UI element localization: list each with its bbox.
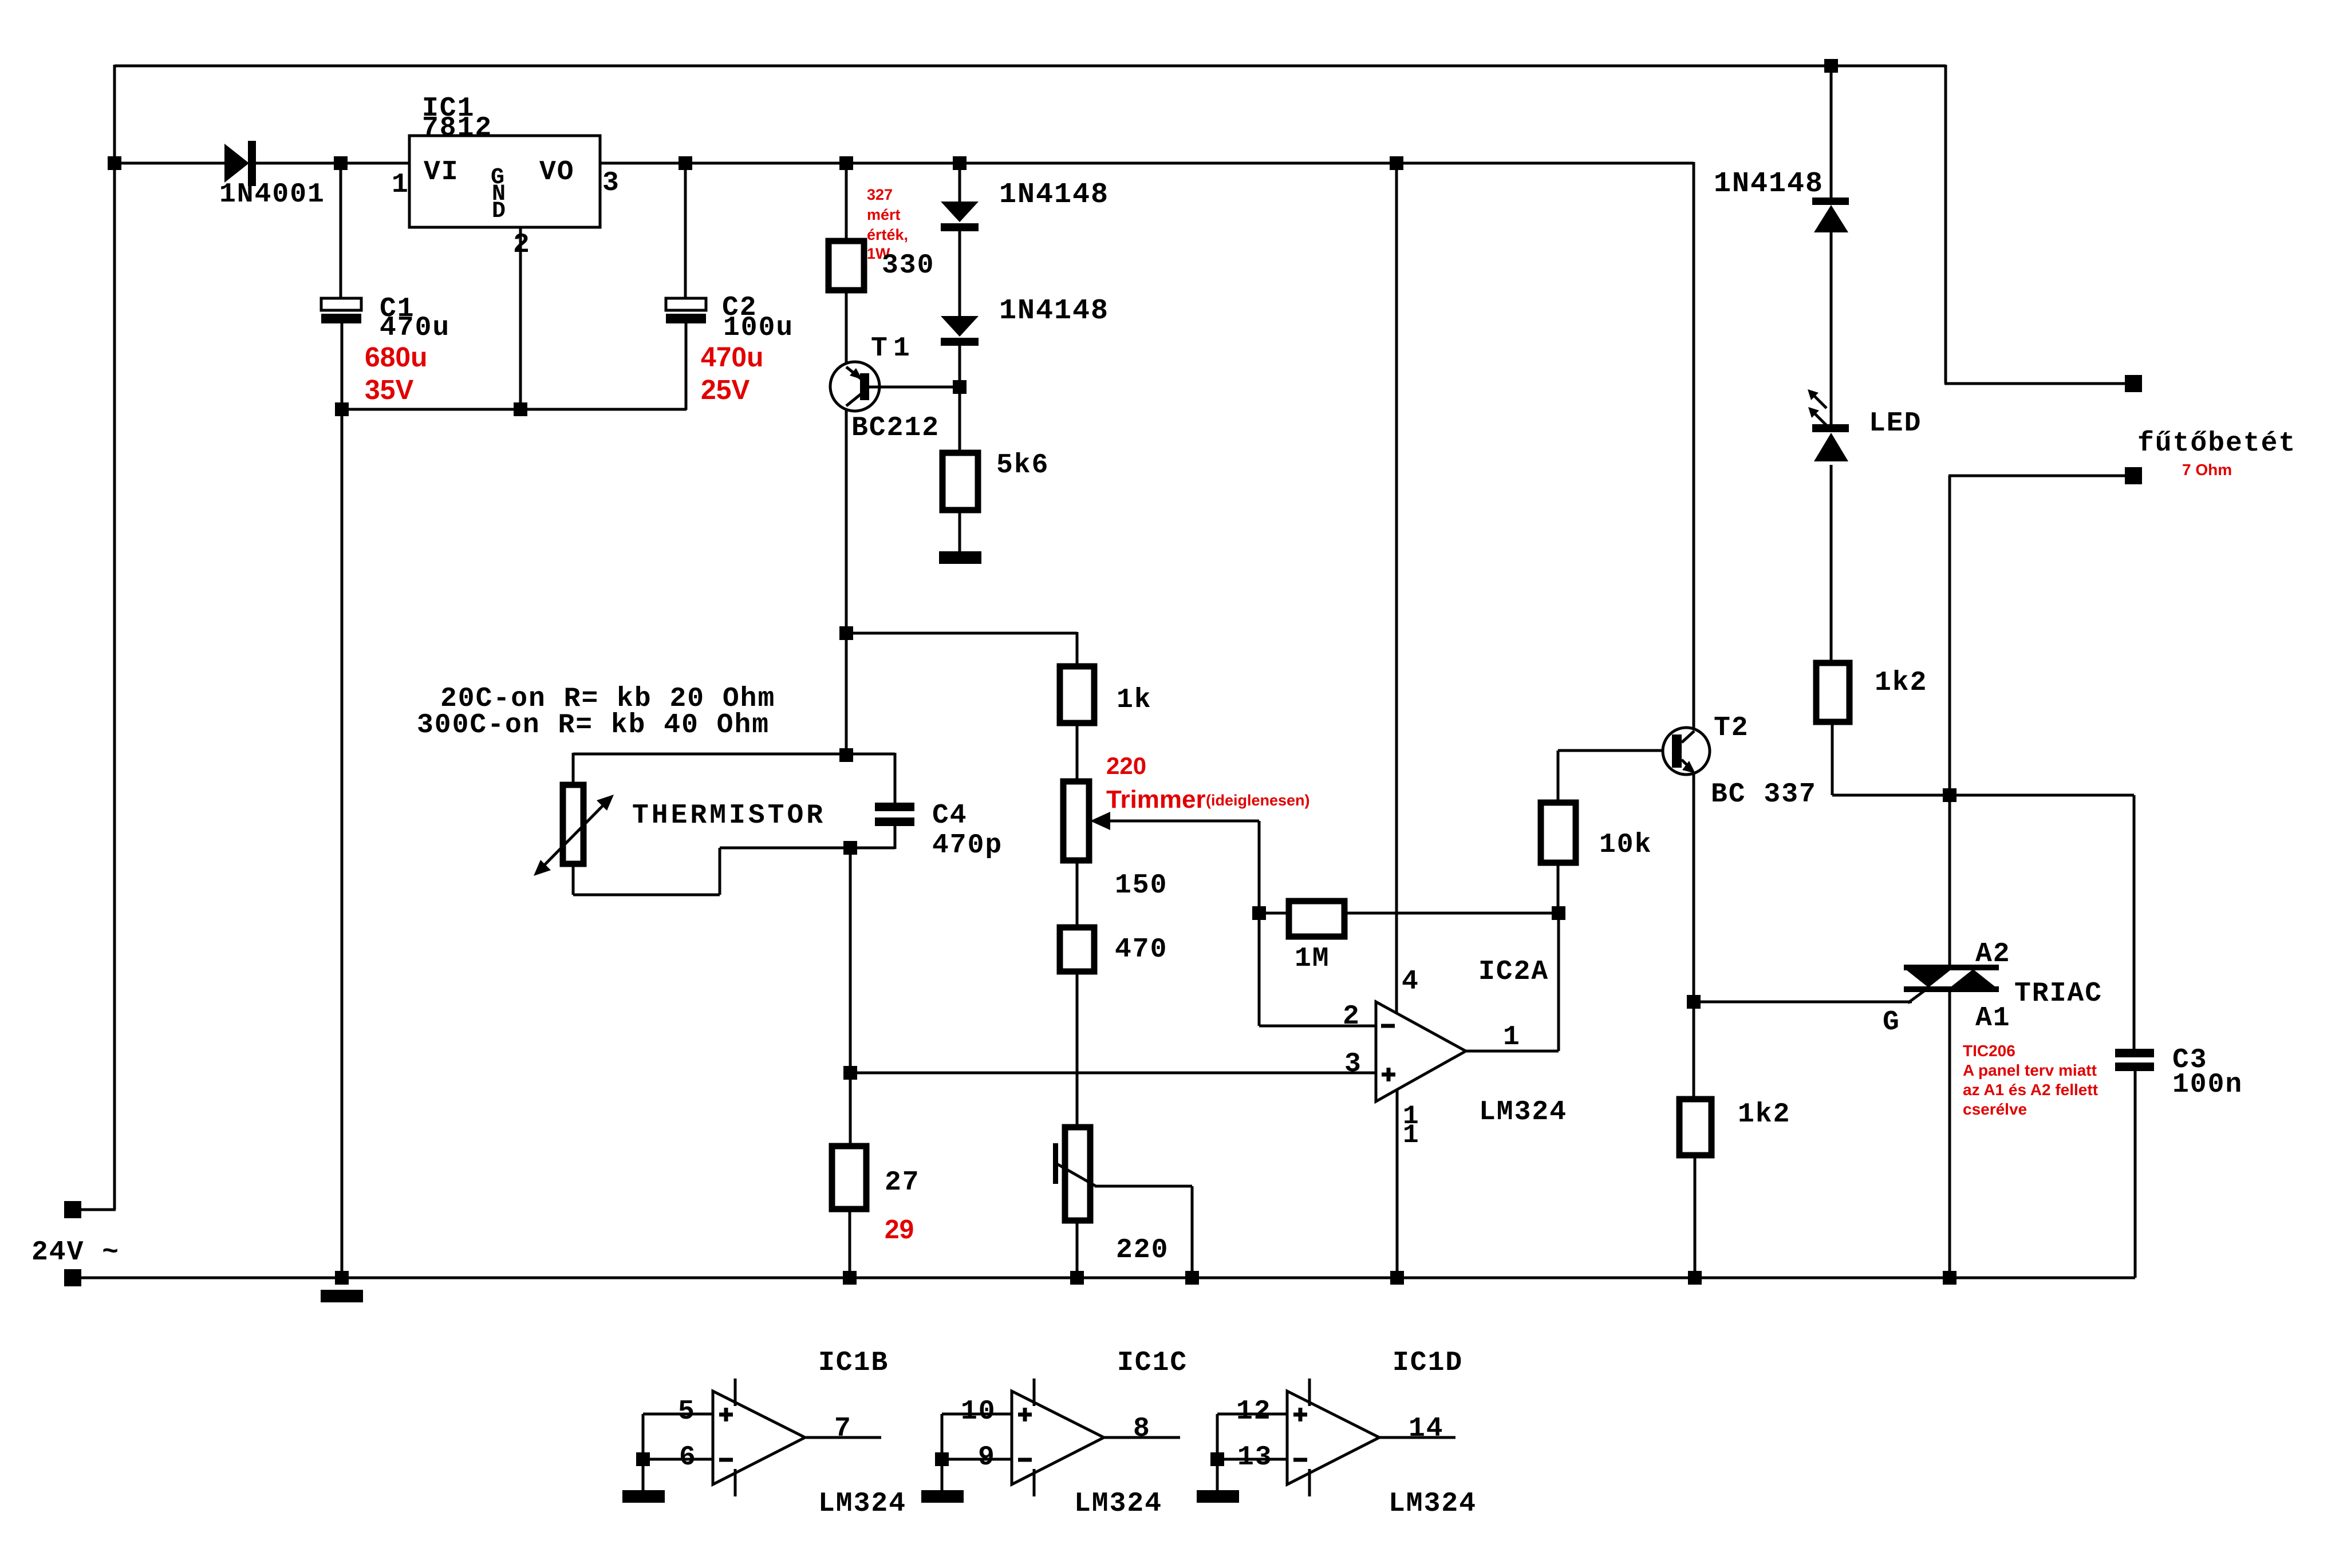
resistor 1k2 (T2 emitter) xyxy=(1679,1099,1711,1155)
label IC1C xyxy=(1117,1348,1188,1379)
label LED xyxy=(1869,408,1922,439)
capacitor C4 470p xyxy=(875,753,914,849)
diode D4 1N4148 (cathode up) xyxy=(1812,198,1849,232)
svg-text:35V: 35V xyxy=(365,375,413,405)
label 470 xyxy=(1115,934,1167,965)
svg-text:TIC206: TIC206 xyxy=(1963,1042,2015,1060)
resistor 1k2 (LED chain) xyxy=(1816,663,1849,722)
pin label 11 (stacked) xyxy=(1403,1101,1420,1150)
svg-text:470u: 470u xyxy=(380,313,450,343)
wire 470 to bottom trimmer xyxy=(1076,971,1079,1127)
pin 2 of IC1 xyxy=(513,230,531,260)
wire thermistor top xyxy=(573,753,895,756)
node junction 27 column / ground rail xyxy=(843,1271,857,1285)
svg-text:300C-on R= kb 40 Ohm: 300C-on R= kb 40 Ohm xyxy=(417,710,770,741)
svg-text:THERMISTOR: THERMISTOR xyxy=(632,800,826,831)
svg-text:680u: 680u xyxy=(365,342,427,373)
node junction input rail / left border xyxy=(108,156,121,170)
svg-text:(ideiglenesen): (ideiglenesen) xyxy=(1206,792,1310,809)
svg-text:1N4001: 1N4001 xyxy=(219,179,325,210)
svg-text:VO: VO xyxy=(539,157,575,188)
wire IC1C output xyxy=(1104,1436,1180,1439)
svg-text:10: 10 xyxy=(961,1396,996,1427)
node junction y1389 / triac column xyxy=(1943,788,1957,802)
svg-text:T: T xyxy=(871,333,889,364)
label 5k6 xyxy=(996,450,1049,481)
svg-text:7 Ohm: 7 Ohm xyxy=(2182,461,2232,479)
svg-text:LM324: LM324 xyxy=(818,1488,906,1519)
wire IC1B output xyxy=(805,1436,881,1439)
wire +12V rail from 7812 VO to T2 collector xyxy=(600,162,1694,165)
pin label 10 xyxy=(961,1396,996,1427)
label IC2A xyxy=(1478,957,1549,988)
wire D3 to junction and to 5k6 xyxy=(958,346,961,453)
label VO pin name xyxy=(539,157,575,188)
trimmer wiper arrow xyxy=(1090,812,1259,830)
wire IC1C + input xyxy=(942,1414,1012,1459)
label 3 xyxy=(1344,1049,1362,1080)
pin label 6 xyxy=(679,1442,697,1473)
label BC 337 xyxy=(1711,779,1817,810)
svg-text:1k2: 1k2 xyxy=(1738,1099,1790,1130)
wire pin 2 horizontal xyxy=(1259,1025,1376,1028)
label LM324 IC1C xyxy=(1074,1488,1162,1519)
wire + input vertical xyxy=(849,848,852,1146)
node junction C2 / +12V rail xyxy=(679,156,692,170)
node junction triac / ground rail xyxy=(1943,1271,1957,1285)
svg-text:érték,: érték, xyxy=(867,226,908,243)
svg-text:1: 1 xyxy=(392,169,409,200)
pin label 13 xyxy=(1237,1442,1273,1473)
svg-text:LM324: LM324 xyxy=(1479,1097,1567,1128)
label futobetet xyxy=(2137,428,2296,459)
svg-text:BC 337: BC 337 xyxy=(1711,779,1817,810)
svg-text:LED: LED xyxy=(1869,408,1922,439)
svg-text:25V: 25V xyxy=(701,375,750,405)
pin label 14 xyxy=(1409,1413,1444,1444)
label T2 xyxy=(1714,713,1749,744)
wire bottom trimmer to ground rail xyxy=(1076,1221,1079,1278)
label T 1 xyxy=(871,333,911,364)
label IC1B xyxy=(818,1348,889,1379)
wire bottom capacitor wire xyxy=(342,408,687,411)
node junction emitter / gate wire xyxy=(1687,995,1701,1009)
node output terminal lower (futobetet) xyxy=(2125,467,2142,484)
label 1N4001 xyxy=(219,179,325,210)
svg-text:470u: 470u xyxy=(701,342,763,373)
wire D4 to LED xyxy=(1830,232,1833,425)
wire triac column up to terminal wire xyxy=(1948,476,1951,795)
node junction bottom wire / + input vertical xyxy=(843,841,857,855)
node junction trimmer / ground rail xyxy=(1070,1271,1084,1285)
label 300C-on R= kb 40 Ohm xyxy=(417,710,770,741)
label 470u xyxy=(380,313,450,343)
svg-text:fűtőbetét: fűtőbetét xyxy=(2137,428,2296,459)
op-amp IC1D triangle xyxy=(1287,1379,1379,1496)
wire 5k6 to ground symbol xyxy=(958,510,961,553)
label THERMISTOR xyxy=(632,800,826,831)
label A1 xyxy=(1975,1003,2011,1034)
wire 330 top lead xyxy=(845,162,848,241)
wire top-right drop to output terminal xyxy=(1944,65,2125,384)
label 1k xyxy=(1117,685,1152,716)
wire IC1B - input xyxy=(643,1459,713,1492)
ground symbol IC1C xyxy=(921,1490,964,1503)
pin label 12 xyxy=(1236,1396,1272,1427)
svg-text:10k: 10k xyxy=(1599,830,1652,860)
svg-text:IC1B: IC1B xyxy=(818,1348,889,1379)
thermistor body xyxy=(563,785,583,864)
wire IC1C - input xyxy=(942,1459,1012,1492)
wire pin 3 horizontal xyxy=(850,1072,1376,1075)
node junction C1 / input rail xyxy=(334,156,348,170)
annotation 470u (red) xyxy=(701,342,763,373)
wire C1 top lead xyxy=(340,162,342,299)
svg-text:D: D xyxy=(492,199,507,224)
node junction IC1B inputs xyxy=(636,1452,650,1466)
thermistor diagonal arrow xyxy=(534,795,614,876)
wire anode rail diode to 7812 xyxy=(256,162,409,165)
label VI pin name xyxy=(424,157,459,188)
svg-text:7: 7 xyxy=(834,1413,852,1444)
wire T2 collector drop xyxy=(1693,162,1695,729)
resistor 330 xyxy=(829,241,864,290)
svg-text:100n: 100n xyxy=(2172,1069,2243,1100)
wire pin 4 vertical (V+) xyxy=(1395,162,1398,1013)
wire ground rail xyxy=(81,1277,2135,1279)
wire 330 to T1 xyxy=(845,290,848,365)
svg-text:1: 1 xyxy=(1403,1120,1420,1150)
ground symbol IC1B xyxy=(622,1490,665,1503)
annotation 7 Ohm (red) xyxy=(2182,461,2232,479)
svg-text:1: 1 xyxy=(893,333,911,364)
wire bottom to C4 xyxy=(720,847,895,850)
svg-text:1k2: 1k2 xyxy=(1875,668,1927,698)
node junction 330 / +12V rail xyxy=(839,156,853,170)
label C4 xyxy=(932,800,968,831)
wire 1k2 down to corner xyxy=(1831,722,1834,795)
node junction pin11 / ground rail xyxy=(1390,1271,1404,1285)
svg-text:1k: 1k xyxy=(1117,685,1152,716)
svg-text:27: 27 xyxy=(885,1167,920,1198)
node junction C1 bottom / bottom wire xyxy=(335,402,349,416)
svg-text:A2: A2 xyxy=(1975,939,2011,970)
node junction T1 emitter / 1k wire xyxy=(839,626,853,640)
node junction wiper / ground rail xyxy=(1185,1271,1199,1285)
wire pin 11 vertical (V-) xyxy=(1396,1090,1399,1278)
svg-text:BC212: BC212 xyxy=(851,413,940,444)
svg-text:6: 6 xyxy=(679,1442,697,1473)
label G xyxy=(1883,1007,1900,1038)
ground symbol at main rail xyxy=(321,1271,363,1302)
label TRIAC xyxy=(2014,978,2103,1009)
pin label 4 xyxy=(1402,966,1419,997)
svg-text:7812: 7812 xyxy=(422,113,492,144)
resistor 10k xyxy=(1541,751,1576,914)
svg-text:470p: 470p xyxy=(932,830,1003,861)
node 24V input terminal lower xyxy=(64,1269,81,1286)
wire output pin 1 xyxy=(1466,913,1559,1051)
label 1N4148 right xyxy=(1714,168,1824,200)
annotation Trimmer (ideiglenesen) (red) xyxy=(1106,785,1310,813)
label 330 xyxy=(882,250,934,281)
wire thermistor top lead xyxy=(572,753,575,785)
node junction thermistor top wire / vertical xyxy=(839,748,853,762)
label GND pin name (vertical) xyxy=(491,165,507,224)
diode D1 1N4001 xyxy=(224,141,256,186)
wire horizontal y1389 xyxy=(1832,794,2134,797)
svg-text:TRIAC: TRIAC xyxy=(2014,978,2103,1009)
pin label 9 xyxy=(978,1442,996,1473)
capacitor C2 xyxy=(666,298,706,323)
label 1 output xyxy=(1503,1022,1521,1053)
svg-text:24V ~: 24V ~ xyxy=(31,1237,120,1268)
op-amp IC1B triangle xyxy=(713,1379,805,1496)
wire C2 top lead xyxy=(684,162,687,299)
node output terminal upper (futobetet) xyxy=(2125,375,2142,392)
label 27 xyxy=(885,1167,920,1198)
svg-text:cserélve: cserélve xyxy=(1963,1100,2027,1118)
label IC1 xyxy=(422,93,475,124)
regulator IC1 7812 box xyxy=(409,136,600,227)
node junction IC1D inputs xyxy=(1210,1452,1224,1466)
label 100u xyxy=(723,313,794,343)
node junction chain / top rail xyxy=(1824,59,1838,73)
annotation 680u (red) xyxy=(365,342,427,373)
wire T1 emitter down xyxy=(845,410,848,755)
svg-text:1N4148: 1N4148 xyxy=(1714,168,1824,200)
wire input rail y285 (left of diode) xyxy=(113,162,224,165)
wire IC1D + input xyxy=(1217,1414,1287,1459)
diode D3 1N4148 xyxy=(941,316,979,346)
svg-text:220: 220 xyxy=(1116,1235,1169,1266)
label LM324 IC1D xyxy=(1389,1488,1477,1519)
wire T2 emitter down xyxy=(1693,773,1695,1099)
svg-text:220: 220 xyxy=(1106,752,1146,779)
wire T2 base xyxy=(1558,749,1673,752)
wire thermistor bottom lead xyxy=(572,864,575,895)
svg-text:T2: T2 xyxy=(1714,713,1749,744)
label IC1D xyxy=(1393,1348,1463,1379)
wire gate horizontal xyxy=(1694,1001,1912,1004)
svg-text:LM324: LM324 xyxy=(1389,1488,1477,1519)
node junction pin4 / +12V rail xyxy=(1390,156,1403,170)
resistor 470 xyxy=(1060,927,1094,971)
transistor T1 BC212 xyxy=(830,362,879,411)
wire wiper drop to pin 2 xyxy=(1258,821,1261,1026)
label 2 xyxy=(1343,1001,1360,1032)
node junction + input xyxy=(843,1066,857,1080)
wire LED to 1k2 xyxy=(1830,465,1833,663)
wire between D2 and D3 xyxy=(958,231,961,316)
resistor 5k6 xyxy=(942,453,978,510)
node junction IC1C inputs xyxy=(935,1452,949,1466)
svg-text:C4: C4 xyxy=(932,800,968,831)
wire trimmer to 470 xyxy=(1076,860,1079,927)
svg-text:Trimmer: Trimmer xyxy=(1106,785,1206,813)
node junction diode chain / +12V rail xyxy=(953,156,967,170)
svg-text:IC2A: IC2A xyxy=(1478,957,1549,988)
wire IC1 GND pin 2 lead xyxy=(519,227,522,409)
pin 1 of IC1 xyxy=(392,169,409,200)
annotation 35V (red) xyxy=(365,375,413,405)
svg-text:az A1 és A2 fellett: az A1 és A2 fellett xyxy=(1963,1081,2098,1099)
label 24V ~ xyxy=(31,1237,120,1268)
op-amp IC1C triangle xyxy=(1012,1379,1104,1496)
label 1k2 chain xyxy=(1875,668,1927,698)
wire IC1D output xyxy=(1379,1436,1455,1439)
annotation 220 (red) xyxy=(1106,752,1146,779)
svg-text:IC1C: IC1C xyxy=(1117,1348,1188,1379)
pin label 5 xyxy=(678,1396,696,1427)
label 150 xyxy=(1115,870,1167,901)
wire 1k to trimmer xyxy=(1076,723,1079,781)
wire T1 base to diode chain xyxy=(869,386,960,389)
wire step up xyxy=(719,848,721,895)
svg-text:100u: 100u xyxy=(723,313,794,343)
label C3 xyxy=(2172,1045,2208,1076)
label 1N4148 second xyxy=(999,295,1109,327)
annotation 327 mert ertek 1W (red) xyxy=(867,186,908,262)
wire junction to 1k column xyxy=(846,632,1077,635)
label 100n xyxy=(2172,1069,2243,1100)
svg-text:8: 8 xyxy=(1133,1413,1151,1444)
wire gate diagonal xyxy=(1908,989,1927,1003)
annotation TIC206 block (red) xyxy=(1963,1042,2098,1118)
wire triac A2 lead xyxy=(1948,795,1951,969)
label 10k xyxy=(1599,830,1652,860)
wire C2 bottom lead xyxy=(685,322,688,410)
capacitor C3 100n xyxy=(2115,1049,2154,1071)
wire chain top lead xyxy=(1830,66,1833,199)
wire C3 top lead xyxy=(2133,795,2136,1050)
svg-text:29: 29 xyxy=(885,1214,914,1244)
svg-text:150: 150 xyxy=(1115,870,1167,901)
node junction 1M / output vertical xyxy=(1552,906,1565,920)
capacitor C1 xyxy=(321,298,361,323)
svg-text:9: 9 xyxy=(978,1442,996,1473)
triac symbol xyxy=(1904,967,1999,989)
resistor 27 xyxy=(832,1146,866,1278)
label BC212 xyxy=(851,413,940,444)
LED symbol xyxy=(1808,389,1849,461)
svg-text:1: 1 xyxy=(1503,1022,1521,1053)
transistor T2 BC337 xyxy=(1663,728,1710,775)
svg-text:A1: A1 xyxy=(1975,1003,2011,1034)
node 24V input terminal upper xyxy=(64,1201,81,1218)
label LM324 IC1B xyxy=(818,1488,906,1519)
wire left border (24V input) xyxy=(81,65,116,1210)
pin label 7 xyxy=(834,1413,852,1444)
svg-text:IC1D: IC1D xyxy=(1393,1348,1463,1379)
label 7812 xyxy=(422,113,492,144)
svg-text:1M: 1M xyxy=(1295,943,1330,974)
annotation 25V (red) xyxy=(701,375,750,405)
svg-text:14: 14 xyxy=(1409,1413,1444,1444)
node junction wiper drop / 1M xyxy=(1252,906,1266,920)
label C1 xyxy=(380,294,415,325)
svg-text:12: 12 xyxy=(1236,1396,1272,1427)
trimmer 220 bottom body xyxy=(1065,1127,1090,1221)
svg-text:1N4148: 1N4148 xyxy=(999,179,1109,211)
svg-text:13: 13 xyxy=(1237,1442,1273,1473)
resistor 1M xyxy=(1259,901,1559,937)
svg-text:5k6: 5k6 xyxy=(996,450,1049,481)
svg-text:A panel terv miatt: A panel terv miatt xyxy=(1963,1061,2097,1079)
svg-text:2: 2 xyxy=(1343,1001,1360,1032)
node junction base wire / diode chain xyxy=(953,380,967,394)
wire C1 bottom lead and long ground vertical xyxy=(341,322,344,1278)
label LM324 IC2A xyxy=(1479,1097,1567,1128)
op-amp IC2A triangle xyxy=(1376,1002,1466,1101)
node junction 1k2 / ground rail xyxy=(1688,1271,1702,1285)
svg-text:3: 3 xyxy=(602,168,620,199)
svg-text:327: 327 xyxy=(867,186,893,203)
svg-text:470: 470 xyxy=(1115,934,1167,965)
wire C3 to ground rail xyxy=(2134,1070,2137,1278)
svg-text:330: 330 xyxy=(882,250,934,281)
wire 1k2 to ground rail xyxy=(1694,1155,1697,1278)
ground symbol below 5k6 xyxy=(939,551,981,564)
wire IC1D - input xyxy=(1217,1459,1287,1492)
pin label 8 xyxy=(1133,1413,1151,1444)
wire IC1B + input xyxy=(643,1414,713,1459)
svg-text:3: 3 xyxy=(1344,1049,1362,1080)
wire to lower output terminal xyxy=(1948,475,2125,477)
label 20C-on R= kb 20 Ohm xyxy=(440,684,775,714)
label C2 xyxy=(722,293,758,323)
label 470p xyxy=(932,830,1003,861)
label 1N4148 first xyxy=(999,179,1109,211)
wire triac A1 to ground rail xyxy=(1948,988,1951,1278)
wire top rail xyxy=(115,65,1946,68)
svg-text:G: G xyxy=(1883,1007,1900,1038)
trimmer 150/220 body xyxy=(1063,781,1089,860)
wire diode chain top lead xyxy=(958,162,961,202)
wire into 1k xyxy=(1076,632,1079,666)
svg-text:5: 5 xyxy=(678,1396,696,1427)
svg-text:VI: VI xyxy=(424,157,459,188)
ground symbol IC1D xyxy=(1197,1490,1239,1503)
label 1k2 emitter xyxy=(1738,1099,1790,1130)
pin 3 of IC1 xyxy=(602,168,620,199)
label A2 xyxy=(1975,939,2011,970)
node junction GND lead / bottom wire xyxy=(514,402,527,416)
trimmer 220 wiper xyxy=(1053,1143,1192,1278)
svg-text:LM324: LM324 xyxy=(1074,1488,1162,1519)
wire thermistor bottom horizontal xyxy=(573,894,720,896)
label 1M xyxy=(1295,943,1330,974)
svg-text:4: 4 xyxy=(1402,966,1419,997)
svg-text:mért: mért xyxy=(867,206,901,223)
diode D2 1N4148 xyxy=(941,202,979,231)
resistor 1k xyxy=(1060,666,1094,723)
label 220 bottom xyxy=(1116,1235,1169,1266)
annotation 29 (red) xyxy=(885,1214,914,1244)
svg-text:1N4148: 1N4148 xyxy=(999,295,1109,327)
